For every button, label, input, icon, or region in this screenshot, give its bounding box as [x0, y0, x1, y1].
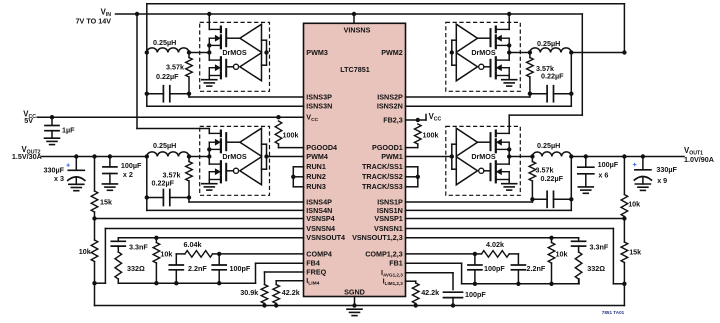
- wire ILIM123: [406, 281, 416, 283]
- transistor M4 low-side MOSFET: [209, 161, 226, 182]
- gate driver buffer M1 bottom (inverting): [456, 157, 484, 185]
- junction VSNSP1 divider tap: [622, 216, 626, 220]
- capacitor C13 3.3nF: [572, 238, 586, 252]
- wire PWM1 from U1: [406, 156, 452, 158]
- junction C2 right: [569, 92, 573, 96]
- junction VINSNS on VIN bus: [352, 12, 356, 16]
- capacitor C14 2.2nF: [511, 254, 525, 284]
- junction VCC bypass: [50, 115, 54, 119]
- svg-text:1.5V/30A: 1.5V/30A: [12, 152, 42, 161]
- label R8 value: [629, 248, 641, 257]
- label R1 value: [536, 166, 554, 175]
- wire ISNS2N: [406, 105, 572, 107]
- junction VOUT1 330uF: [641, 154, 645, 158]
- junction M1 source-SW: [507, 147, 511, 151]
- junction R12 bottom: [262, 303, 266, 307]
- label C2 value: [541, 72, 564, 81]
- wire PWM4 to U1: [267, 156, 304, 158]
- ground C6: [69, 184, 84, 190]
- junction R16 bottom: [549, 282, 553, 286]
- wire M3 low-side source to ground: [208, 76, 210, 80]
- junction TRACK/SS2: [416, 175, 420, 179]
- resistor R18 4.02k: [475, 251, 519, 258]
- svg-text:DrMOS: DrMOS: [471, 152, 496, 161]
- gate driver buffer M3 top: [240, 24, 262, 52]
- resistor R14 100k pullup PGOOD4: [275, 121, 282, 148]
- label C12 value: [230, 264, 251, 273]
- wire VSNSOUT123 line: [406, 237, 579, 239]
- wire IAVG123: [406, 273, 454, 290]
- svg-text:PWM1: PWM1: [381, 152, 403, 161]
- DrMOS module M2 dashed boundary: [446, 22, 521, 91]
- ground M3 internal: [202, 80, 217, 86]
- resistor R19 42.2k: [412, 283, 419, 306]
- svg-text:VSNSN1: VSNSN1: [374, 224, 403, 233]
- label R11 value: [184, 240, 202, 249]
- junction VCC to 100k: [276, 115, 280, 119]
- wire VOUT1 top bus (phase3 output to phase2 output): [147, 4, 625, 53]
- label R12 value: [240, 288, 258, 297]
- capacitor C6 330uF x3 polarized: [68, 157, 85, 185]
- svg-text:TRACK/SS3: TRACK/SS3: [362, 182, 403, 191]
- label L1 value: [537, 141, 560, 150]
- junction 330uF x3: [74, 154, 78, 158]
- wire VSNSOUT4 line: [118, 237, 303, 239]
- inductor L3 0.25uH: [147, 48, 189, 53]
- label VCC 5V: [24, 116, 33, 125]
- resistor R3 3.57k: [186, 53, 193, 94]
- resistor R8 15k: [621, 219, 628, 284]
- svg-text:x 9: x 9: [657, 176, 667, 185]
- junction feedback chain top: [92, 154, 96, 158]
- svg-text:COMP1,2,3: COMP1,2,3: [365, 249, 403, 258]
- label R10 value: [160, 249, 172, 258]
- junction VSNSN1 divider bottom: [622, 282, 626, 286]
- capacitor C1 0.22uF: [532, 191, 571, 207]
- wire VINSNS pickoff: [353, 14, 355, 23]
- svg-text:x 6: x 6: [598, 170, 608, 179]
- label M1: [471, 152, 496, 161]
- wire VOUT2 rail: [42, 156, 147, 158]
- label C9 value: [656, 165, 677, 174]
- wire TRACK/SS tie: [406, 167, 418, 187]
- gate driver buffer M2 top: [456, 24, 477, 52]
- svg-text:ISNS3P: ISNS3P: [306, 92, 332, 101]
- junction M1 PWM input: [450, 154, 454, 158]
- wire VOUT1 divider drop: [623, 157, 625, 195]
- svg-text:100pF: 100pF: [465, 290, 486, 299]
- svg-text:RUN3: RUN3: [306, 182, 326, 191]
- label L2 value: [537, 39, 560, 48]
- svg-text:0.22µF: 0.22µF: [541, 174, 564, 183]
- junction M2 source-SW: [507, 43, 511, 47]
- svg-text:ISNS2P: ISNS2P: [377, 92, 403, 101]
- label C13 value: [590, 242, 609, 251]
- svg-text:3.3nF: 3.3nF: [590, 242, 609, 251]
- resistor R1 3.57k: [529, 157, 536, 200]
- svg-text:4.02k: 4.02k: [486, 240, 504, 249]
- svg-text:2.2nF: 2.2nF: [527, 264, 546, 273]
- wire PGOOD1: [406, 147, 418, 149]
- wire phase3 output vertical: [146, 53, 148, 107]
- junction M3 source-SW: [207, 43, 211, 47]
- label VOUT1 spec: [684, 155, 714, 164]
- junction RUN2: [291, 175, 295, 179]
- wire phase1 sense vertical: [570, 157, 572, 211]
- wire VOUT1 rail: [571, 156, 684, 158]
- svg-text:5V: 5V: [24, 116, 33, 125]
- label C16 value: [465, 290, 486, 299]
- transistor M2 high-side MOSFET: [491, 27, 510, 49]
- svg-text:1.0V/90A: 1.0V/90A: [684, 155, 714, 164]
- ground M4 internal: [202, 184, 217, 190]
- wire M4 top gate lead: [226, 141, 240, 143]
- svg-text:x 2: x 2: [123, 170, 133, 179]
- wire M1 SW to sense node: [509, 156, 532, 158]
- svg-text:FB1: FB1: [389, 259, 403, 268]
- wire ISNS2P: [406, 94, 530, 97]
- label R4 value: [163, 170, 181, 179]
- wire COMP4 line: [219, 253, 303, 255]
- svg-text:FREQ: FREQ: [306, 267, 326, 276]
- capacitor C7 100uF x2: [103, 157, 117, 184]
- transistor M2 low-side MOSFET: [491, 57, 510, 78]
- svg-text:PGOOD1: PGOOD1: [372, 143, 403, 152]
- wire VSNSN4: [95, 229, 304, 284]
- svg-text:+: +: [633, 160, 638, 169]
- junction C1 left: [530, 197, 534, 201]
- gate driver buffer M4 bottom (inverting): [233, 157, 261, 185]
- svg-text:7V TO 14V: 7V TO 14V: [76, 16, 112, 25]
- resistor R7 10k: [621, 195, 628, 219]
- label VOUT1: [684, 146, 703, 157]
- wire M4 switch-node vertical: [208, 149, 210, 164]
- gate driver buffer M1 top: [456, 128, 477, 156]
- junction L3 right: [187, 50, 191, 54]
- resistor R4 3.57k: [186, 157, 193, 198]
- svg-text:TRACK/SS2: TRACK/SS2: [362, 172, 403, 181]
- wire M4 driver input tie: [262, 144, 267, 169]
- label VCC left: [23, 109, 36, 120]
- wire ISNS3P: [189, 94, 304, 97]
- label VIN range: [76, 16, 112, 25]
- label C6 qty: [54, 174, 64, 183]
- ground SGND symbol: [347, 309, 362, 315]
- label R7 value: [628, 200, 640, 209]
- junction L3 left: [145, 50, 149, 54]
- svg-text:VSNSP4: VSNSP4: [306, 214, 334, 223]
- capacitor C9 330uF x9 polarized: [634, 157, 651, 185]
- svg-text:42.2k: 42.2k: [282, 288, 300, 297]
- junction M4 PWM input: [264, 154, 268, 158]
- svg-text:0.25µH: 0.25µH: [153, 38, 176, 47]
- svg-text:COMP4: COMP4: [306, 249, 332, 258]
- svg-text:2.2nF: 2.2nF: [188, 264, 207, 273]
- svg-text:332Ω: 332Ω: [587, 264, 605, 273]
- wire VSNSP4: [95, 218, 304, 220]
- junction L4 right: [187, 154, 191, 158]
- svg-text:100µF: 100µF: [121, 161, 142, 170]
- label R3 value: [166, 62, 184, 71]
- label C9 qty: [657, 176, 667, 185]
- resistor R17 332: [575, 252, 582, 284]
- label R18 value: [486, 240, 504, 249]
- junction C11 bottom: [174, 281, 178, 285]
- wire VCC rail: [37, 116, 303, 118]
- wire SGND pin drop: [354, 297, 356, 306]
- resistor R9 332: [115, 252, 122, 283]
- svg-text:6.04k: 6.04k: [184, 240, 202, 249]
- label C5 value: [62, 125, 75, 134]
- label U1 SGND pin: [344, 288, 365, 297]
- junction VIN to M3 drain: [207, 12, 211, 16]
- label R16 value: [556, 249, 568, 258]
- svg-text:PWM3: PWM3: [306, 48, 328, 57]
- svg-text:0.25µH: 0.25µH: [153, 141, 176, 150]
- junction R19 bottom: [414, 303, 418, 307]
- junction C15 top: [473, 252, 477, 256]
- svg-text:PGOOD4: PGOOD4: [306, 143, 337, 152]
- label C15 value: [484, 264, 505, 273]
- wire M2 switch-node vertical: [508, 45, 510, 60]
- junction VIN to M2 drain: [507, 12, 511, 16]
- svg-text:42.2k: 42.2k: [421, 288, 439, 297]
- gate driver buffer M2 bottom (inverting): [456, 53, 484, 81]
- svg-text:PWM4: PWM4: [306, 152, 328, 161]
- junction M2 PWM input: [450, 50, 454, 54]
- junction SGND: [352, 303, 356, 307]
- svg-text:15k: 15k: [629, 248, 641, 257]
- wire M3 driver input tie: [262, 40, 267, 65]
- label C8 value: [598, 160, 619, 169]
- wire RUN1-3 tie: [293, 167, 303, 187]
- wire FB4 line: [118, 263, 303, 283]
- svg-text:100µF: 100µF: [598, 160, 619, 169]
- wire M1 low-side source to ground: [508, 180, 510, 184]
- capacitor C4 0.22uF: [147, 190, 189, 206]
- svg-text:7851 TA01: 7851 TA01: [602, 310, 625, 315]
- svg-text:100pF: 100pF: [230, 264, 251, 273]
- resistor R13 42.2k: [273, 285, 280, 306]
- transistor M3 low-side MOSFET: [209, 57, 226, 78]
- label C4 value: [152, 179, 175, 188]
- wire VIN left drop to phase4: [137, 14, 209, 133]
- wire divider bottom to ground corner: [623, 284, 625, 306]
- svg-text:10k: 10k: [79, 247, 91, 256]
- wire VIN bus right drop: [509, 14, 582, 133]
- label VOUT2: [21, 145, 40, 156]
- label R2 value: [536, 64, 554, 73]
- label C6 value: [43, 165, 64, 174]
- junction M2 SW node: [507, 50, 511, 54]
- label R5 value: [100, 197, 112, 206]
- label C1 value: [541, 174, 564, 183]
- svg-text:0.25µH: 0.25µH: [537, 141, 560, 150]
- capacitor C15 100pF: [468, 254, 482, 284]
- resistor R12 30.9k: [261, 285, 268, 306]
- label L3 value: [153, 38, 176, 47]
- svg-text:VINSNS: VINSNS: [344, 26, 371, 35]
- wire ISNS1P: [406, 199, 533, 202]
- junction divider bottom: [92, 281, 96, 285]
- junction C3 right: [187, 92, 191, 96]
- svg-text:ISNS2N: ISNS2N: [377, 102, 403, 111]
- wire M1 switch-node vertical: [508, 149, 510, 164]
- ground M2 internal: [502, 80, 517, 86]
- ground C7: [102, 184, 117, 190]
- capacitor C16 100pF: [444, 292, 463, 305]
- label R9 value: [127, 264, 145, 273]
- wire ISNS4P: [189, 198, 304, 203]
- junction M1 sense node: [530, 154, 534, 158]
- wire divider bottom to ground: [94, 283, 96, 305]
- junction L2 right: [569, 50, 573, 54]
- label R15 value: [423, 131, 439, 140]
- wire M2 top gate lead: [478, 37, 491, 39]
- junction L4 left on VOUT2 rail: [145, 154, 149, 158]
- op-amp U1 LTC7851 controller body: [304, 23, 406, 296]
- labels U1 left pin names: [306, 48, 345, 287]
- svg-text:15k: 15k: [100, 197, 112, 206]
- svg-text:10k: 10k: [160, 249, 172, 258]
- svg-text:+: +: [66, 161, 71, 170]
- svg-text:332Ω: 332Ω: [127, 264, 145, 273]
- inductor L1 0.25uH: [532, 152, 571, 157]
- junction C1 right: [569, 197, 573, 201]
- svg-text:30.9k: 30.9k: [240, 288, 258, 297]
- label C14 value: [527, 264, 546, 273]
- svg-text:0.22µF: 0.22µF: [541, 72, 564, 81]
- label C10 value: [129, 242, 148, 251]
- label M4: [222, 152, 247, 161]
- wire M4 bottom gate lead: [226, 170, 233, 172]
- wire PGOOD4: [279, 147, 304, 149]
- svg-text:VSNSP1: VSNSP1: [374, 214, 402, 223]
- junction VOUT1 100uF: [584, 154, 588, 158]
- transistor M1 high-side MOSFET: [491, 131, 510, 153]
- junction R10 bottom: [154, 281, 158, 285]
- svg-text:FB4: FB4: [306, 259, 320, 268]
- junction R13 bottom: [274, 303, 278, 307]
- label C3 value: [156, 72, 179, 81]
- wire ISNS4N: [147, 209, 304, 211]
- wire COMP123 line: [406, 253, 475, 255]
- wire M1 driver input tie: [452, 144, 457, 169]
- wire ISNS1N: [406, 209, 572, 211]
- ground C9: [635, 184, 650, 190]
- capacitor C2 0.22uF: [530, 86, 571, 102]
- ground C8: [578, 187, 593, 193]
- label C7 qty: [123, 170, 133, 179]
- inductor L2 0.25uH: [530, 48, 571, 53]
- junction R16 top: [549, 236, 553, 240]
- label C9 plus: [633, 160, 638, 169]
- label M2: [471, 48, 496, 57]
- wire FREQ: [265, 272, 304, 285]
- label R6 value: [79, 247, 91, 256]
- DrMOS module M4 dashed boundary: [200, 126, 270, 195]
- svg-text:VSNSOUT1,2,3: VSNSOUT1,2,3: [352, 233, 403, 242]
- junction C2 left: [528, 92, 532, 96]
- junction L1 right: [569, 154, 573, 158]
- junction VOUT1 bus top: [622, 50, 626, 54]
- resistor R11 6.04k: [176, 251, 219, 258]
- resistor R2 3.57k: [527, 53, 534, 94]
- wire VSNSN1: [406, 229, 625, 284]
- svg-text:RUN1: RUN1: [306, 162, 326, 171]
- wire M2 bottom gate lead: [484, 66, 491, 68]
- label U1 LTC7851: [340, 65, 369, 74]
- junction C15 bottom: [473, 282, 477, 286]
- svg-text:x 3: x 3: [54, 174, 64, 183]
- wire FB2,3 to VCC tie: [406, 115, 427, 121]
- svg-text:ISNS3N: ISNS3N: [306, 102, 332, 111]
- label R17 value: [587, 264, 605, 273]
- svg-text:VSNSOUT4: VSNSOUT4: [306, 233, 345, 242]
- junction FB2,3 node: [416, 118, 420, 122]
- gate driver buffer M4 top: [240, 128, 262, 156]
- label circuit id: [602, 310, 625, 315]
- labels U1 right pin names: [352, 48, 403, 286]
- junction M2 sense node: [528, 50, 532, 54]
- junction M3 SW node: [207, 50, 211, 54]
- junction R10 top: [154, 236, 158, 240]
- resistor R6 10k: [91, 219, 98, 284]
- wire M4 low-side source to ground: [208, 180, 210, 184]
- ground M1 internal: [502, 184, 517, 190]
- resistor R15 100k pullup PGOOD1: [415, 124, 422, 148]
- capacitor C3 0.22uF: [147, 86, 189, 102]
- junction VOUT1 bus vertical: [622, 154, 626, 158]
- svg-text:TRACK/SS1: TRACK/SS1: [362, 162, 403, 171]
- wire phase4 sense vertical: [146, 157, 148, 211]
- wire M1 top gate lead: [478, 141, 491, 143]
- svg-text:0.25µH: 0.25µH: [537, 39, 560, 48]
- junction C12 top: [217, 252, 221, 256]
- junction M4 source-SW: [207, 147, 211, 151]
- label C8 qty: [598, 170, 608, 179]
- svg-text:0.22µF: 0.22µF: [152, 179, 175, 188]
- label VOUT2 spec: [12, 152, 42, 161]
- wire M2 low-side source to ground: [508, 76, 510, 80]
- svg-text:DrMOS: DrMOS: [222, 152, 247, 161]
- junction M1 SW node: [507, 154, 511, 158]
- capacitor C5 1uF: [45, 117, 59, 138]
- svg-text:3.57k: 3.57k: [166, 62, 184, 71]
- svg-text:PWM2: PWM2: [381, 48, 403, 57]
- svg-text:100k: 100k: [283, 130, 299, 139]
- wire ILIM4: [276, 281, 303, 285]
- junction M4 SW node: [207, 154, 211, 158]
- svg-text:RUN2: RUN2: [306, 172, 326, 181]
- resistor R10 10k: [153, 238, 160, 283]
- gate driver buffer M3 bottom (inverting): [233, 53, 261, 81]
- wire SGND bus: [95, 305, 625, 307]
- svg-text:LTC7851: LTC7851: [340, 65, 369, 74]
- junction M3 PWM input: [264, 50, 268, 54]
- wire M2 driver input tie: [452, 40, 457, 65]
- label C6 plus: [66, 161, 71, 170]
- DrMOS module M3 dashed boundary: [200, 22, 270, 91]
- svg-text:1µF: 1µF: [62, 125, 75, 134]
- wire M4 SW to sense node: [189, 156, 209, 158]
- resistor R5 15k: [91, 191, 98, 219]
- wire M3 drain from VIN: [208, 14, 210, 29]
- wire VIN bus: [116, 13, 583, 15]
- capacitor C8 100uF x6: [578, 157, 594, 187]
- svg-text:10k: 10k: [628, 200, 640, 209]
- junction 100uF x2: [108, 154, 112, 158]
